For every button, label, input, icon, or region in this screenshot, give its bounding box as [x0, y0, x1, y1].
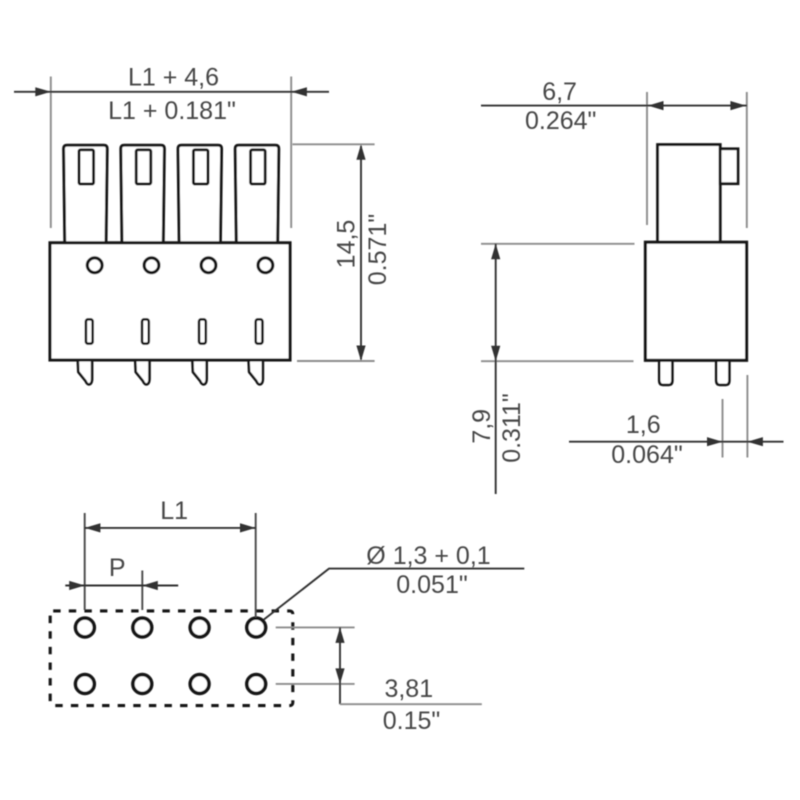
svg-text:0.15": 0.15": [383, 707, 441, 735]
svg-text:0.311": 0.311": [498, 393, 526, 463]
svg-text:1,6: 1,6: [626, 411, 661, 439]
svg-text:14,5: 14,5: [332, 220, 360, 269]
svg-text:P: P: [109, 554, 126, 582]
svg-text:Ø 1,3 + 0,1: Ø 1,3 + 0,1: [366, 542, 490, 570]
svg-text:0.051": 0.051": [396, 571, 467, 599]
svg-text:0.264": 0.264": [525, 107, 596, 135]
svg-text:L1 + 0.181": L1 + 0.181": [108, 97, 236, 125]
svg-text:0.064": 0.064": [611, 441, 682, 469]
svg-text:7,9: 7,9: [468, 409, 496, 444]
svg-text:L1 + 4,6: L1 + 4,6: [128, 63, 219, 91]
svg-text:0.571": 0.571": [364, 214, 392, 285]
svg-text:3,81: 3,81: [384, 675, 433, 703]
svg-text:6,7: 6,7: [542, 78, 577, 106]
svg-text:L1: L1: [160, 497, 188, 525]
